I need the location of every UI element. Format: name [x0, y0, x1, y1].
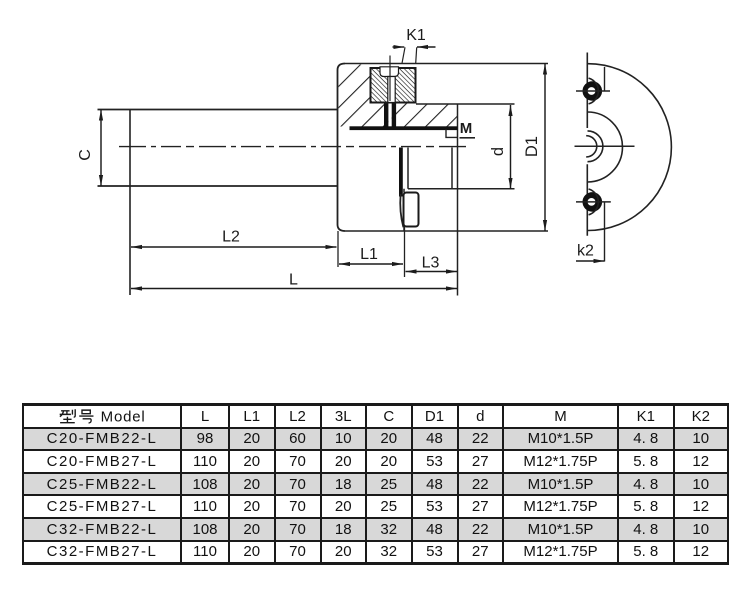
thin bore line lower — [407, 148, 409, 189]
dimension L2 — [131, 246, 337, 248]
specification table — [22, 403, 729, 565]
main centre line — [119, 146, 469, 148]
shank left edge + extension down — [129, 110, 131, 296]
flange face lower segments — [403, 189, 405, 231]
pilot bottom edge + d bottom extension — [408, 188, 515, 190]
dimension C — [100, 110, 102, 187]
key slot taper arc — [400, 194, 403, 227]
shank outline — [98, 110, 338, 187]
hanzi xing (type) — [60, 409, 76, 422]
centre horizontal line — [575, 145, 635, 147]
pilot front edge (outer view) — [451, 148, 453, 189]
bottom bolt hole — [583, 192, 603, 212]
body top edge + D1 top extension — [345, 63, 548, 65]
dimension L1 — [339, 263, 403, 265]
svg-text:D1: D1 — [523, 136, 541, 157]
centre hole outer arc — [588, 131, 603, 162]
flange circle arc — [588, 112, 623, 182]
outer circle D1 arc — [588, 64, 671, 231]
M thread notch — [446, 129, 458, 137]
pilot top edge + d top extension — [416, 103, 515, 105]
svg-text:M: M — [460, 120, 473, 137]
svg-text:K1: K1 — [406, 27, 426, 44]
set screw body dense hatch — [371, 68, 416, 103]
svg-text:L3: L3 — [422, 255, 440, 272]
body outline flange — [338, 64, 346, 232]
body bottom edge + D1 bottom extension — [345, 230, 548, 232]
hanzi hao (number) — [80, 410, 94, 423]
screw slot — [380, 67, 399, 77]
dimension d — [510, 105, 512, 189]
screw shaft band — [388, 77, 395, 103]
svg-text:d: d — [489, 147, 507, 156]
white gap of screw shaft through hatch band — [388, 103, 391, 128]
extension x=404.5 — [404, 227, 406, 278]
svg-text:C: C — [77, 149, 94, 161]
top key edge — [604, 67, 606, 91]
centre hole inner arc — [586, 136, 597, 157]
extension x=338 — [337, 231, 339, 267]
body section hatch (wide) — [339, 65, 458, 127]
svg-text:k2: k2 — [577, 243, 594, 260]
svg-text:L: L — [289, 272, 298, 289]
dimension k2 — [604, 202, 606, 262]
drive key — [404, 193, 419, 227]
svg-text:L1: L1 — [360, 246, 378, 263]
screw shaft thick bars — [384, 103, 388, 130]
cutter seat thick line — [350, 126, 458, 130]
dimension D1 — [544, 64, 546, 232]
dimension L3 — [406, 271, 458, 273]
svg-text:L2: L2 — [222, 229, 240, 246]
front face line + L/L3 extension — [457, 104, 459, 296]
dimension L — [131, 288, 457, 290]
face flat edge — [586, 53, 588, 236]
key slot thick edge — [399, 148, 403, 197]
screw centre line — [389, 56, 391, 102]
top bolt hole — [583, 81, 603, 101]
